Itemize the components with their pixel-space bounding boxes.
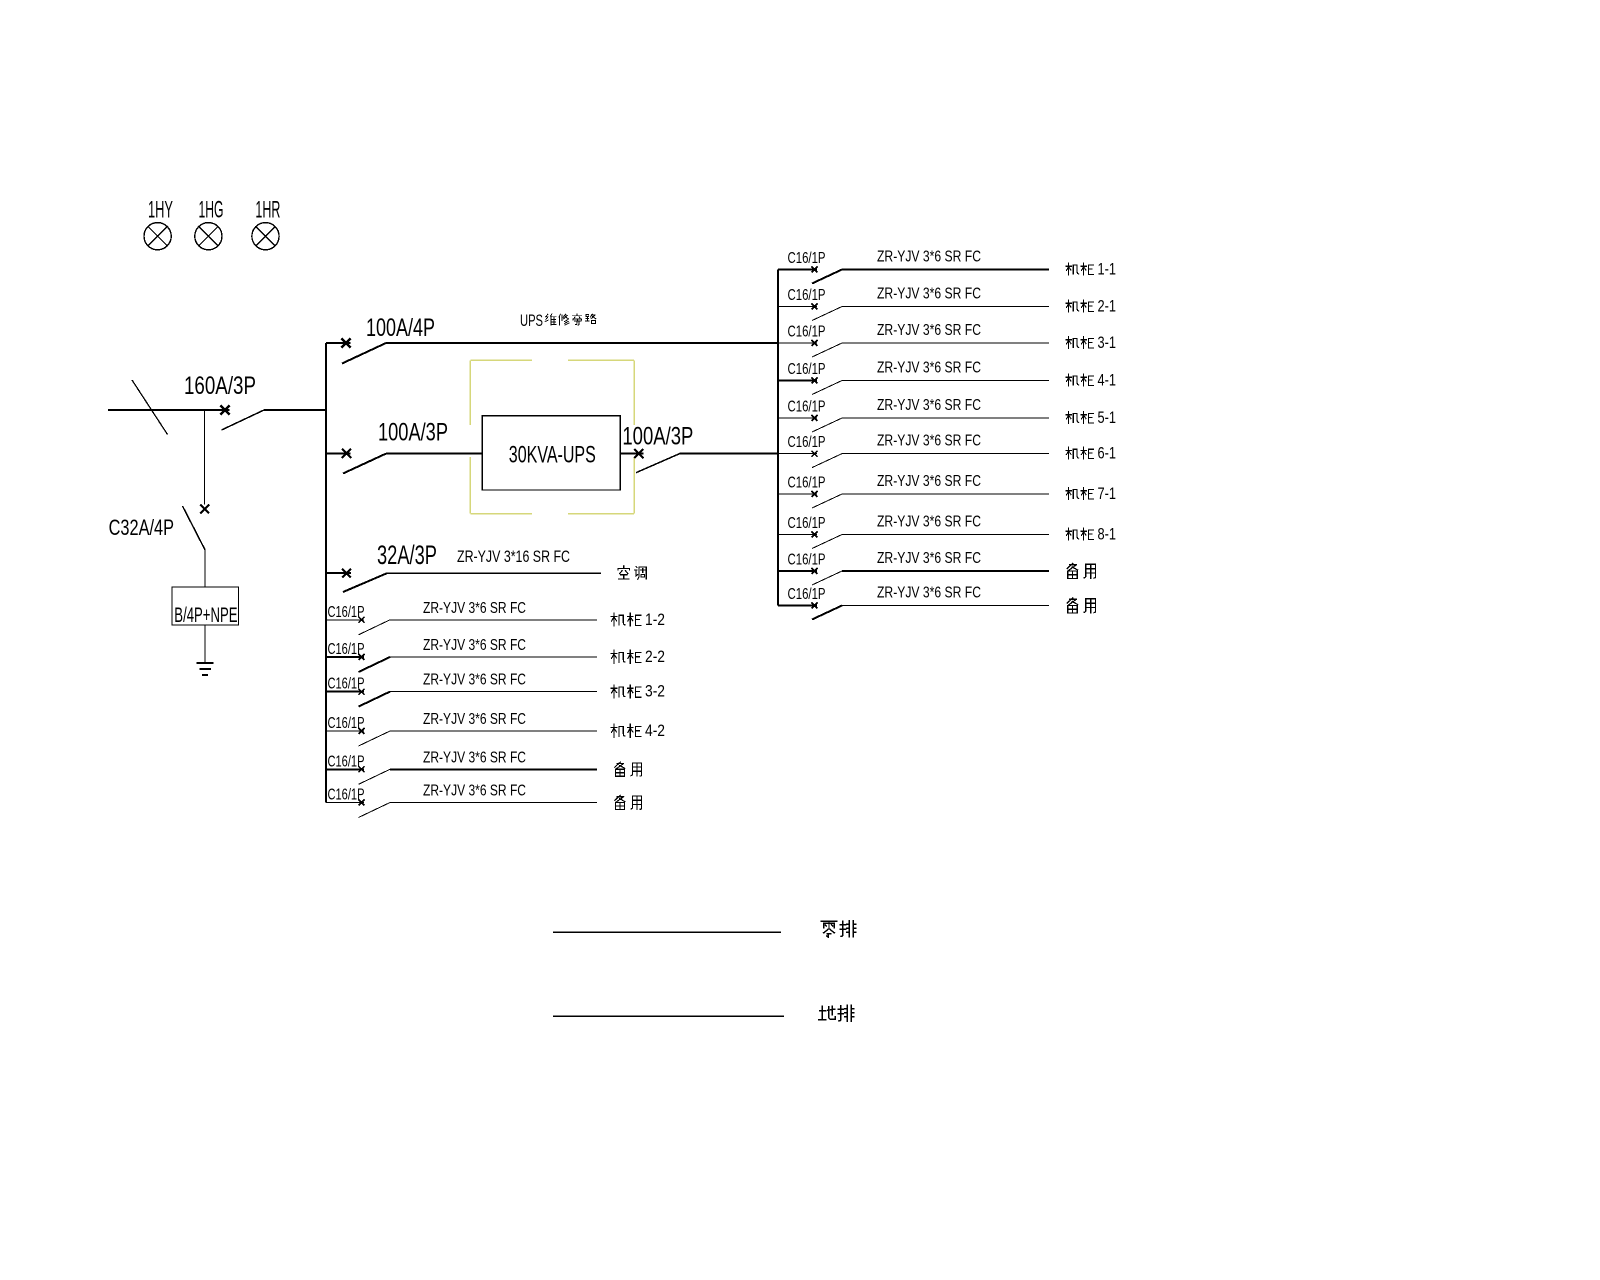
svg-text:100A/3P: 100A/3P [378, 419, 448, 447]
svg-text:160A/3P: 160A/3P [184, 372, 256, 400]
wire UPS output to distribution bus [680, 453, 778, 455]
load 备用 [1067, 598, 1095, 613]
svg-text:C32A/4P: C32A/4P [109, 515, 174, 540]
cable label ZR-YJV 3*6 SR FC [423, 600, 526, 617]
svg-text:ZR-YJV 3*6 SR FC: ZR-YJV 3*6 SR FC [877, 473, 981, 490]
SPD B/4P+NPE [172, 587, 239, 627]
breaker C16/1P right branch 机柜 2-1 [778, 287, 842, 321]
load 机柜 5-1 [1066, 409, 1116, 427]
yellow dashed frame [470, 360, 634, 513]
svg-text:1-1: 1-1 [1098, 261, 1117, 279]
load 机柜 4-1 [1066, 372, 1116, 390]
wire UPS maintenance bypass [386, 342, 778, 344]
load 备用 [615, 795, 642, 809]
svg-text:7-1: 7-1 [1098, 485, 1117, 503]
indicator lamp 1HY [144, 197, 173, 250]
breaker C16/1P right branch 备用 [778, 552, 842, 586]
wire circuit 机柜 1-2 [390, 619, 597, 621]
load 机柜 3-2 [611, 682, 665, 701]
breaker 100A/4P [326, 314, 435, 364]
UPS unit 30KVA-UPS [482, 416, 620, 490]
load 机柜 4-2 [611, 721, 665, 740]
svg-text:ZR-YJV 3*6 SR FC: ZR-YJV 3*6 SR FC [877, 322, 981, 339]
svg-text:100A/3P: 100A/3P [622, 423, 693, 451]
svg-text:8-1: 8-1 [1098, 526, 1117, 544]
label neutral bar [821, 921, 855, 938]
svg-text:ZR-YJV 3*6 SR FC: ZR-YJV 3*6 SR FC [877, 286, 981, 303]
cable label ZR-YJV 3*6 SR FC [423, 672, 526, 689]
breaker C16/1P right branch 机柜 1-1 [778, 250, 842, 284]
breaker C16/1P right branch 机柜 7-1 [778, 475, 842, 509]
wire SPD to ground [204, 625, 206, 663]
wire circuit 机柜 3-2 [390, 691, 597, 693]
wire circuit 机柜 1-1 [842, 269, 1049, 271]
breaker C16/1P left branch 机柜 4-2 [326, 715, 390, 746]
svg-text:ZR-YJV 3*6 SR FC: ZR-YJV 3*6 SR FC [423, 749, 526, 766]
svg-text:ZR-YJV 3*6 SR FC: ZR-YJV 3*6 SR FC [877, 585, 981, 602]
svg-text:ZR-YJV 3*6 SR FC: ZR-YJV 3*6 SR FC [423, 783, 526, 800]
svg-text:UPS: UPS [520, 311, 543, 330]
svg-text:C16/1P: C16/1P [788, 250, 826, 267]
breaker C16/1P right branch 机柜 6-1 [778, 434, 842, 468]
wire circuit 备用 [842, 570, 1049, 572]
wire incoming feeder [108, 409, 230, 411]
load air conditioner [618, 566, 646, 579]
svg-text:C16/1P: C16/1P [328, 676, 365, 693]
svg-text:C16/1P: C16/1P [788, 361, 826, 378]
breaker C16/1P right branch 机柜 8-1 [778, 515, 842, 549]
svg-text:C16/1P: C16/1P [788, 287, 826, 304]
svg-text:ZR-YJV 3*6 SR FC: ZR-YJV 3*6 SR FC [877, 550, 981, 567]
load 机柜 6-1 [1066, 445, 1116, 463]
cable label ZR-YJV 3*6 SR FC [423, 711, 526, 728]
svg-text:3-1: 3-1 [1098, 334, 1117, 352]
breaker C16/1P left branch 机柜 1-2 [326, 604, 390, 635]
load 机柜 8-1 [1066, 526, 1116, 544]
breaker 160A/3P [184, 372, 264, 430]
wire to UPS [386, 453, 482, 455]
svg-text:C16/1P: C16/1P [328, 753, 365, 770]
cable label ZR-YJV 3*6 SR FC [423, 783, 526, 800]
cable label ZR-YJV 3*6 SR FC [877, 514, 981, 531]
breaker C16/1P left branch 机柜 3-2 [326, 676, 390, 707]
wire circuit 机柜 4-2 [390, 730, 597, 732]
cable label ZR-YJV 3*6 SR FC [877, 249, 981, 266]
svg-text:ZR-YJV 3*6 SR FC: ZR-YJV 3*6 SR FC [877, 397, 981, 414]
wire drop to SPD [204, 410, 206, 505]
svg-text:30KVA-UPS: 30KVA-UPS [509, 442, 596, 469]
wire circuit 备用 [390, 768, 597, 770]
breaker C16/1P right branch 机柜 3-1 [778, 324, 842, 358]
cable label ZR-YJV 3*6 SR FC [423, 749, 526, 766]
breaker C16/1P right branch 备用 [778, 586, 842, 620]
svg-text:2-2: 2-2 [645, 647, 665, 666]
load 机柜 2-1 [1066, 298, 1116, 316]
svg-text:3-2: 3-2 [645, 682, 665, 701]
load 机柜 7-1 [1066, 485, 1116, 503]
wire circuit 机柜 4-1 [842, 380, 1049, 382]
svg-text:C16/1P: C16/1P [788, 515, 826, 532]
svg-text:ZR-YJV 3*6 SR FC: ZR-YJV 3*6 SR FC [877, 360, 981, 377]
cable label ZR-YJV 3*16 SR FC [457, 547, 570, 566]
svg-text:C16/1P: C16/1P [328, 641, 365, 658]
svg-text:ZR-YJV 3*6 SR FC: ZR-YJV 3*6 SR FC [423, 672, 526, 689]
wire to SPD box [204, 550, 206, 587]
svg-text:5-1: 5-1 [1098, 409, 1117, 427]
wire circuit 机柜 8-1 [842, 534, 1049, 536]
label UPS bypass [520, 311, 596, 330]
svg-text:C16/1P: C16/1P [788, 552, 826, 569]
incoming supply slash mark [132, 380, 168, 435]
svg-text:ZR-YJV 3*6 SR FC: ZR-YJV 3*6 SR FC [877, 433, 981, 450]
svg-text:C16/1P: C16/1P [328, 604, 365, 621]
cable label ZR-YJV 3*6 SR FC [877, 322, 981, 339]
cable label ZR-YJV 3*6 SR FC [877, 286, 981, 303]
load 机柜 1-1 [1066, 261, 1116, 279]
svg-text:ZR-YJV 3*16 SR FC: ZR-YJV 3*16 SR FC [457, 547, 570, 566]
load 备用 [1067, 563, 1095, 578]
wire circuit 机柜 6-1 [842, 453, 1049, 455]
label ground bar [819, 1005, 854, 1021]
svg-text:ZR-YJV 3*6 SR FC: ZR-YJV 3*6 SR FC [423, 711, 526, 728]
svg-text:C16/1P: C16/1P [788, 399, 826, 416]
wire circuit 机柜 7-1 [842, 493, 1049, 495]
cable label ZR-YJV 3*6 SR FC [423, 637, 526, 654]
wire circuit 机柜 3-1 [842, 342, 1049, 344]
svg-text:C16/1P: C16/1P [788, 586, 826, 603]
svg-text:B/4P+NPE: B/4P+NPE [174, 603, 237, 627]
svg-text:1HY: 1HY [148, 197, 173, 224]
svg-text:1HR: 1HR [255, 197, 280, 224]
breaker C32A/4P [109, 505, 210, 550]
cable label ZR-YJV 3*6 SR FC [877, 433, 981, 450]
svg-text:C16/1P: C16/1P [788, 324, 826, 341]
load 机柜 1-2 [611, 610, 665, 629]
svg-text:2-1: 2-1 [1098, 298, 1117, 316]
svg-text:C16/1P: C16/1P [328, 715, 365, 732]
svg-text:ZR-YJV 3*6 SR FC: ZR-YJV 3*6 SR FC [877, 514, 981, 531]
svg-text:1HG: 1HG [199, 197, 224, 224]
neutral bar legend line [553, 931, 781, 933]
svg-text:ZR-YJV 3*6 SR FC: ZR-YJV 3*6 SR FC [423, 600, 526, 617]
load 机柜 3-1 [1066, 334, 1116, 352]
cable label ZR-YJV 3*6 SR FC [877, 397, 981, 414]
svg-text:4-1: 4-1 [1098, 372, 1117, 390]
svg-text:C16/1P: C16/1P [788, 434, 826, 451]
svg-text:32A/3P: 32A/3P [377, 540, 437, 570]
svg-text:100A/4P: 100A/4P [366, 314, 435, 342]
main trunk bus [325, 343, 327, 803]
wire circuit 机柜 5-1 [842, 417, 1049, 419]
wire circuit 备用 [842, 605, 1049, 607]
ground bar legend line [553, 1015, 784, 1017]
wire circuit 机柜 2-2 [390, 656, 597, 658]
wire feeder to trunk [264, 409, 327, 411]
svg-text:C16/1P: C16/1P [328, 787, 365, 804]
breaker C16/1P left branch 备用 [326, 753, 390, 784]
load 机柜 2-2 [611, 647, 665, 666]
breaker C16/1P left branch 机柜 2-2 [326, 641, 390, 672]
svg-text:4-2: 4-2 [645, 721, 665, 740]
svg-text:1-2: 1-2 [645, 610, 665, 629]
UPS output distribution bus [777, 270, 779, 606]
indicator lamp 1HG [195, 197, 224, 250]
svg-text:6-1: 6-1 [1098, 445, 1117, 463]
breaker 32A/3P [326, 540, 437, 592]
wire circuit 机柜 2-1 [842, 306, 1049, 308]
ground [197, 663, 214, 675]
svg-text:C16/1P: C16/1P [788, 475, 826, 492]
indicator lamp 1HR [252, 197, 281, 250]
cable label ZR-YJV 3*6 SR FC [877, 473, 981, 490]
load 备用 [615, 762, 642, 776]
wire circuit 备用 [390, 802, 597, 804]
svg-text:ZR-YJV 3*6 SR FC: ZR-YJV 3*6 SR FC [877, 249, 981, 266]
svg-text:ZR-YJV 3*6 SR FC: ZR-YJV 3*6 SR FC [423, 637, 526, 654]
breaker C16/1P right branch 机柜 5-1 [778, 399, 842, 433]
breaker C16/1P right branch 机柜 4-1 [778, 361, 842, 395]
breaker C16/1P left branch 备用 [326, 787, 390, 818]
cable label ZR-YJV 3*6 SR FC [877, 585, 981, 602]
breaker 100A/3P UPS input [326, 419, 448, 474]
breaker 100A/3P UPS output [620, 423, 693, 473]
cable label ZR-YJV 3*6 SR FC [877, 550, 981, 567]
cable label ZR-YJV 3*6 SR FC [877, 360, 981, 377]
wire air conditioner circuit [387, 572, 601, 574]
